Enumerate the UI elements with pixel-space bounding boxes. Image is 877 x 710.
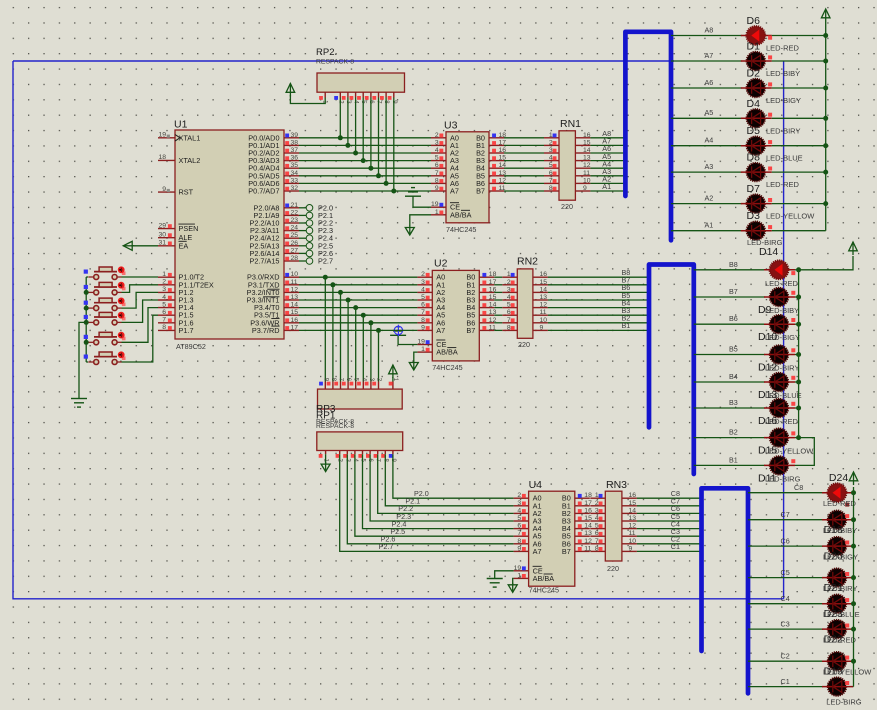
svg-text:7: 7 — [435, 170, 439, 177]
wire U2 AB/BA to terminal — [414, 352, 418, 361]
svg-text:7: 7 — [507, 317, 511, 324]
svg-text:4: 4 — [421, 286, 425, 293]
svg-text:LED-RED: LED-RED — [823, 499, 857, 508]
svg-text:1: 1 — [595, 492, 599, 499]
svg-text:19: 19 — [417, 339, 425, 346]
power terminal LED rail 1 — [821, 9, 830, 22]
LED D3 LED-BIRG — [741, 210, 783, 247]
svg-text:C8: C8 — [794, 483, 803, 492]
svg-text:LED-BLUE: LED-BLUE — [765, 391, 802, 400]
wire RP3 pin1 to power — [392, 377, 394, 382]
svg-text:P0.7/AD7: P0.7/AD7 — [248, 187, 279, 196]
svg-text:14: 14 — [584, 523, 592, 530]
svg-text:B7: B7 — [466, 326, 475, 335]
wire U4 CE to ground — [495, 571, 514, 579]
svg-text:13: 13 — [583, 155, 591, 162]
svg-text:19: 19 — [431, 201, 439, 208]
svg-text:16: 16 — [291, 317, 299, 324]
svg-text:11: 11 — [540, 309, 547, 316]
svg-text:12: 12 — [291, 286, 299, 293]
wire bus P3.0-P3.7 U1 to U2 with RP1 taps — [299, 277, 417, 381]
svg-text:9: 9 — [583, 185, 587, 192]
wire LED cathodes column 2 to power rail — [795, 256, 853, 465]
svg-text:34: 34 — [291, 170, 299, 177]
bus B blue — [649, 265, 694, 475]
svg-text:9: 9 — [540, 324, 544, 331]
svg-text:12: 12 — [584, 538, 592, 545]
push button 3 — [88, 298, 125, 311]
input terminal U2 AB/BA — [409, 361, 418, 371]
svg-text:2: 2 — [549, 139, 553, 146]
svg-text:16: 16 — [583, 132, 591, 139]
input terminal EA — [123, 241, 134, 250]
svg-text:9: 9 — [517, 545, 521, 552]
svg-text:1: 1 — [507, 271, 511, 278]
wire U2 B ports to RN2 — [494, 277, 502, 330]
svg-text:C6: C6 — [781, 536, 790, 545]
svg-text:C1: C1 — [671, 542, 680, 551]
wire U2 CE to ground — [398, 335, 417, 344]
svg-text:4: 4 — [595, 515, 599, 522]
svg-text:10: 10 — [291, 271, 299, 278]
LED D5 LED-BLUE — [741, 125, 803, 163]
junctions button rail — [84, 290, 89, 345]
svg-text:LED-RED: LED-RED — [765, 279, 799, 288]
wire blue rectangle net — [13, 60, 674, 62]
svg-text:6: 6 — [421, 302, 425, 309]
svg-text:XTAL1: XTAL1 — [179, 133, 201, 142]
marker on P3.7 wire — [393, 325, 404, 336]
svg-text:LED-BLUE: LED-BLUE — [823, 610, 860, 619]
svg-text:18: 18 — [489, 271, 497, 278]
push button 2 — [88, 282, 125, 295]
svg-text:RN3: RN3 — [606, 479, 627, 491]
svg-text:LED-RED: LED-RED — [765, 417, 799, 426]
svg-text:29: 29 — [158, 222, 166, 229]
wire button 4 to P1.3 — [122, 300, 159, 322]
svg-text:28: 28 — [291, 255, 299, 262]
wire button 1 to P1.0 — [122, 276, 159, 278]
svg-text:B3: B3 — [729, 398, 738, 407]
LED D14 LED-RED — [759, 246, 799, 288]
svg-text:B2: B2 — [729, 428, 738, 437]
svg-text:AB/BA: AB/BA — [450, 210, 472, 219]
svg-text:12: 12 — [583, 162, 591, 169]
LED D7 LED-YELLOW — [741, 183, 815, 221]
LED D1 LED-BIBY — [741, 41, 800, 79]
svg-text:8: 8 — [507, 324, 511, 331]
svg-text:LED-BIBY: LED-BIBY — [766, 69, 800, 78]
svg-text:U3: U3 — [444, 120, 458, 132]
svg-text:11: 11 — [499, 185, 506, 192]
resistor pack RP1 RESPACK-8 lower — [317, 432, 403, 463]
ground terminal RP1 pin1 — [321, 462, 330, 472]
power terminal for RP2 pin 1 — [286, 84, 295, 97]
svg-text:21: 21 — [291, 202, 299, 209]
net labels C8-C1 at bus C entry — [671, 489, 680, 551]
junctions P0 rows — [338, 135, 397, 193]
svg-text:8: 8 — [435, 177, 439, 184]
svg-text:6: 6 — [595, 530, 599, 537]
svg-text:A6: A6 — [705, 78, 714, 87]
svg-text:U4: U4 — [529, 479, 543, 491]
svg-text:XTAL2: XTAL2 — [179, 156, 201, 165]
wire RN3 to bus C — [637, 498, 702, 551]
svg-text:P2.7: P2.7 — [379, 542, 394, 551]
ground for U3 CE — [405, 188, 421, 197]
svg-text:1: 1 — [421, 346, 425, 353]
svg-text:D3: D3 — [747, 210, 761, 222]
LED D24 LED-BIRG — [822, 677, 862, 706]
svg-text:A7: A7 — [705, 51, 714, 60]
svg-text:B7: B7 — [476, 187, 485, 196]
svg-text:LED-YELLOW: LED-YELLOW — [766, 212, 815, 221]
svg-text:D7: D7 — [747, 183, 761, 195]
svg-text:4: 4 — [549, 155, 553, 162]
wire RP1 pin1 to ground terminal — [325, 454, 327, 464]
LED D21 LED-BLUE — [822, 595, 860, 621]
svg-text:15: 15 — [540, 279, 548, 286]
svg-text:74HC245: 74HC245 — [432, 363, 462, 372]
svg-text:10: 10 — [540, 317, 548, 324]
svg-text:5: 5 — [517, 515, 521, 522]
svg-text:LED-BIRY: LED-BIRY — [823, 584, 857, 593]
svg-text:P1.7: P1.7 — [179, 326, 194, 335]
wire RN2 to bus B — [548, 277, 649, 330]
svg-text:31: 31 — [158, 240, 166, 247]
svg-text:10: 10 — [583, 177, 591, 184]
svg-text:36: 36 — [291, 155, 299, 162]
ground terminal U4 AB/BA — [508, 583, 517, 593]
svg-text:P3.7/RD: P3.7/RD — [252, 326, 280, 335]
svg-text:1: 1 — [162, 271, 166, 278]
svg-text:11: 11 — [629, 530, 636, 537]
wire button 3 to P1.2 — [122, 292, 159, 308]
LED D23 LED-YELLOW — [822, 652, 872, 678]
wire U4 AB/BA to terminal — [512, 578, 515, 584]
svg-text:14: 14 — [540, 286, 548, 293]
svg-text:16: 16 — [584, 507, 592, 514]
svg-text:AT89C52: AT89C52 — [176, 342, 206, 351]
svg-text:A1: A1 — [705, 221, 714, 230]
push button 6 — [88, 351, 125, 364]
svg-text:4: 4 — [162, 294, 166, 301]
svg-text:16: 16 — [489, 286, 497, 293]
LED D22 LED-RED — [822, 620, 857, 646]
pin numbers U3 B side — [499, 132, 507, 192]
svg-text:14: 14 — [583, 147, 591, 154]
svg-text:B8: B8 — [729, 260, 738, 269]
svg-text:6: 6 — [517, 523, 521, 530]
svg-text:1: 1 — [435, 209, 439, 216]
svg-text:15: 15 — [584, 515, 592, 522]
LED D19 LED-BIGY — [822, 537, 858, 563]
svg-text:19: 19 — [514, 565, 522, 572]
svg-text:AB/BA: AB/BA — [533, 574, 555, 583]
junctions LED rail 3 — [851, 490, 856, 664]
wire EA to terminal — [132, 245, 158, 247]
svg-text:16: 16 — [499, 147, 507, 154]
svg-text:37: 37 — [291, 147, 299, 154]
svg-text:12: 12 — [629, 523, 637, 530]
svg-text:RP2.: RP2. — [316, 47, 337, 58]
svg-text:3: 3 — [421, 279, 425, 286]
LED D18 LED-BIBY — [822, 511, 857, 537]
svg-text:5: 5 — [507, 302, 511, 309]
svg-text:8: 8 — [162, 324, 166, 331]
svg-text:5: 5 — [435, 155, 439, 162]
svg-text:13: 13 — [291, 294, 299, 301]
svg-text:15: 15 — [489, 294, 497, 301]
svg-text:74HC245: 74HC245 — [529, 586, 559, 595]
svg-text:39: 39 — [291, 132, 299, 139]
wires bus C to LED anodes C8-C1 — [748, 493, 823, 687]
LED D4 LED-BIRY — [741, 98, 801, 136]
svg-text:LED-BIRY: LED-BIRY — [766, 126, 800, 135]
svg-text:LED-BIBY: LED-BIBY — [765, 306, 799, 315]
svg-text:6: 6 — [162, 309, 166, 316]
junctions LED rail 1 — [823, 33, 828, 206]
svg-text:2: 2 — [517, 492, 521, 499]
LED D10 LED-BIGY — [758, 315, 800, 343]
svg-text:RESPACK-8: RESPACK-8 — [316, 59, 354, 66]
svg-text:LED-RED: LED-RED — [823, 636, 857, 645]
svg-text:D8: D8 — [747, 152, 761, 164]
svg-text:15: 15 — [629, 500, 637, 507]
power terminal LED rail 3 — [849, 472, 858, 485]
svg-text:6: 6 — [507, 309, 511, 316]
svg-text:14: 14 — [499, 162, 507, 169]
LED D12 LED-BIRY — [758, 345, 799, 373]
LED D13 LED-BLUE — [758, 373, 802, 401]
bus A blue — [625, 32, 671, 241]
svg-text:2: 2 — [595, 500, 599, 507]
svg-text:2: 2 — [421, 271, 425, 278]
svg-text:14: 14 — [291, 302, 299, 309]
svg-text:7: 7 — [421, 309, 425, 316]
svg-text:4: 4 — [435, 147, 439, 154]
net labels B8-B1 at bus B entry — [622, 268, 631, 330]
wire LED cathodes column 3 to power rail — [852, 487, 855, 687]
svg-text:A7: A7 — [436, 326, 445, 335]
svg-text:9: 9 — [435, 185, 439, 192]
svg-text:9: 9 — [629, 545, 633, 552]
svg-text:9: 9 — [162, 186, 166, 193]
svg-text:LED-BIGY: LED-BIGY — [765, 333, 800, 342]
svg-text:EA: EA — [179, 241, 189, 250]
svg-text:12: 12 — [540, 302, 548, 309]
wire bus P0.0-P0.7 U1 to U3 with RP2 pullup taps — [299, 98, 431, 192]
svg-text:D2: D2 — [747, 68, 761, 80]
junctions LED rail 2 — [796, 267, 801, 440]
resistor network RN1 220 — [544, 118, 591, 211]
svg-text:P2.7/A15: P2.7/A15 — [249, 257, 279, 266]
svg-text:24: 24 — [291, 225, 299, 232]
svg-text:13: 13 — [540, 294, 548, 301]
svg-text:LED-RED: LED-RED — [766, 44, 800, 53]
svg-text:8: 8 — [595, 545, 599, 552]
buffer U2 74HC245 — [417, 258, 494, 373]
wire U3 AB/BA to terminal — [410, 215, 431, 226]
svg-text:35: 35 — [291, 162, 299, 169]
svg-text:17: 17 — [584, 500, 592, 507]
svg-text:220: 220 — [607, 564, 619, 573]
wire button 6 to P1.5 — [122, 315, 159, 362]
svg-text:15: 15 — [583, 139, 591, 146]
buffer U4 74HC245 — [514, 479, 590, 595]
svg-text:LED-RED: LED-RED — [766, 180, 800, 189]
svg-text:2: 2 — [162, 279, 166, 286]
wire U3 CE to ground — [413, 196, 431, 207]
svg-text:15: 15 — [499, 155, 507, 162]
svg-text:C3: C3 — [781, 619, 790, 628]
svg-text:220: 220 — [561, 202, 573, 211]
svg-text:14: 14 — [629, 507, 637, 514]
svg-text:16: 16 — [629, 492, 637, 499]
svg-text:13: 13 — [499, 170, 507, 177]
svg-text:RN2: RN2 — [517, 256, 538, 268]
svg-text:B5: B5 — [729, 345, 738, 354]
svg-text:3: 3 — [162, 286, 166, 293]
svg-text:RN1: RN1 — [560, 118, 581, 130]
svg-text:A3: A3 — [705, 162, 714, 171]
svg-text:8: 8 — [549, 185, 553, 192]
svg-text:LED-YELLOW: LED-YELLOW — [765, 447, 814, 456]
svg-text:7: 7 — [162, 317, 166, 324]
svg-text:11: 11 — [584, 545, 591, 552]
ground for U2 CE — [390, 327, 406, 336]
power terminal LED rail 2 — [849, 242, 858, 255]
svg-text:4: 4 — [507, 294, 511, 301]
svg-text:B4: B4 — [729, 372, 738, 381]
svg-text:18: 18 — [158, 154, 166, 161]
svg-text:C2: C2 — [781, 651, 790, 660]
LED D16 LED-RED — [758, 399, 799, 427]
net labels A8-A1 at LEDs — [705, 25, 714, 229]
LED D6 LED-RED — [741, 15, 800, 53]
svg-text:7: 7 — [549, 177, 553, 184]
svg-text:220: 220 — [518, 340, 530, 349]
svg-text:A7: A7 — [533, 547, 542, 556]
svg-text:D14: D14 — [759, 246, 778, 258]
LED D9 LED-BIBY — [758, 288, 799, 316]
svg-text:2: 2 — [435, 132, 439, 139]
svg-text:3: 3 — [517, 500, 521, 507]
input terminal for U3 AB/BA — [405, 226, 414, 236]
push button 5 — [88, 332, 125, 345]
svg-text:6: 6 — [435, 162, 439, 169]
svg-text:B1: B1 — [622, 321, 631, 330]
LED D2 LED-BIGY — [741, 68, 801, 106]
LED D20 LED-BIRY — [822, 568, 857, 594]
ground button rail — [71, 399, 87, 408]
buffer U3 74HC245 — [431, 120, 504, 235]
svg-text:P2.7: P2.7 — [318, 257, 333, 266]
svg-text:5: 5 — [595, 523, 599, 530]
svg-text:LED-BIGY: LED-BIGY — [766, 96, 801, 105]
svg-text:U2: U2 — [434, 258, 448, 270]
state squares button rail — [84, 270, 88, 359]
svg-text:AB/BA: AB/BA — [436, 348, 458, 357]
pin numbers U2 B side — [489, 271, 497, 331]
svg-text:17: 17 — [291, 324, 299, 331]
svg-text:2: 2 — [507, 279, 511, 286]
svg-text:13: 13 — [629, 515, 637, 522]
svg-text:D24: D24 — [829, 472, 848, 484]
svg-text:A1: A1 — [602, 182, 611, 191]
svg-text:1: 1 — [517, 572, 521, 579]
svg-text:D1: D1 — [747, 41, 761, 53]
svg-text:18: 18 — [584, 492, 592, 499]
svg-text:5: 5 — [162, 301, 166, 308]
svg-text:B7: B7 — [562, 547, 571, 556]
node terminals P2.0-P2.7 — [299, 203, 333, 265]
svg-text:1: 1 — [549, 132, 553, 139]
svg-text:14: 14 — [489, 302, 497, 309]
svg-text:D5: D5 — [747, 125, 761, 137]
svg-text:5: 5 — [421, 294, 425, 301]
wire LED cathodes column 1 to power rail — [772, 22, 826, 231]
push button 1 — [88, 266, 125, 279]
svg-text:17: 17 — [499, 139, 507, 146]
resistor pack RP2 RESPACK-8 — [316, 47, 405, 104]
svg-text:17: 17 — [489, 279, 497, 286]
junctions P3 rows — [323, 275, 381, 333]
svg-text:A2: A2 — [705, 193, 714, 202]
pin numbers U4 B side — [584, 492, 592, 552]
wire U3 B ports to RN1 — [504, 138, 544, 191]
wire RP2 pin1 to power — [290, 95, 325, 104]
svg-text:LED-YELLOW: LED-YELLOW — [823, 668, 872, 677]
wires RP1 to U4 A ports P2.0-P2.7 — [340, 454, 514, 551]
svg-text:8: 8 — [517, 538, 521, 545]
svg-text:B6: B6 — [729, 314, 738, 323]
ground for U4 CE — [487, 579, 503, 588]
wires bus B to LED anodes B8-B1 — [694, 270, 765, 466]
push button 4 — [88, 312, 125, 325]
net labels B8-B1 at LEDs — [729, 260, 738, 465]
net labels C8-C1 at LEDs — [781, 483, 804, 686]
bus C blue — [702, 488, 749, 693]
svg-text:30: 30 — [158, 232, 166, 239]
mcu U1 AT89C52 — [158, 119, 299, 352]
svg-text:9: 9 — [421, 324, 425, 331]
svg-text:LED-BIBY: LED-BIBY — [823, 526, 857, 535]
svg-text:PSEN: PSEN — [179, 224, 199, 233]
svg-text:B7: B7 — [729, 287, 738, 296]
svg-text:11: 11 — [291, 279, 298, 286]
svg-text:C4: C4 — [781, 594, 790, 603]
svg-text:A8: A8 — [705, 25, 714, 34]
svg-text:12: 12 — [499, 177, 507, 184]
LED D11 LED-BIRG — [758, 456, 801, 484]
svg-text:C7: C7 — [781, 510, 790, 519]
resistor network RN3 220 — [590, 479, 637, 573]
svg-text:LED-BIRG: LED-BIRG — [826, 698, 862, 707]
svg-text:RST: RST — [179, 188, 194, 197]
svg-text:11: 11 — [583, 170, 590, 177]
wire button common rail — [79, 277, 88, 399]
svg-text:4: 4 — [517, 507, 521, 514]
svg-text:3: 3 — [595, 507, 599, 514]
svg-text:U1: U1 — [174, 119, 188, 131]
svg-text:8: 8 — [421, 317, 425, 324]
svg-text:LED-BIRY: LED-BIRY — [765, 364, 799, 373]
LED D8 LED-RED — [741, 152, 800, 190]
LED D17 LED-RED — [822, 472, 857, 508]
svg-text:LED-BIGY: LED-BIGY — [823, 553, 858, 562]
svg-text:32: 32 — [291, 185, 299, 192]
